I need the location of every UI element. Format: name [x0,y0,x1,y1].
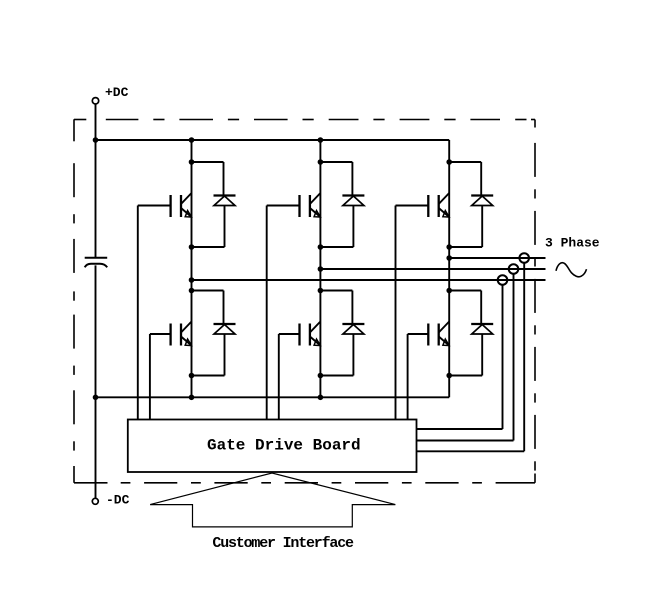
wire gate Q4 to gate drive board [278,334,280,420]
dashed enclosure border right [534,120,536,483]
wire gate lead Q2 [150,333,171,335]
node emitter Q4 [318,373,324,379]
svg-text:-DC: -DC [106,492,130,507]
node negative bus / leg 1 [189,395,195,401]
wire anode of D6 return [449,334,482,376]
wire gate Q2 to gate drive board [149,334,151,420]
diode D6 [471,324,493,334]
diode D1 [214,196,236,206]
customer interface arrow [150,473,395,527]
wire gate lead Q3 [267,205,300,207]
wire DC link lower [95,265,97,498]
label -DC [106,492,130,507]
wire phase 1 feedback to board [417,285,503,429]
node emitter Q3 [318,244,324,250]
wire anode of D4 return [320,334,353,376]
wire DC link upper [95,140,97,258]
label Customer Interface [212,535,354,552]
wire collector branch to D3 [320,162,352,196]
wire gate Q6 to gate drive board [407,334,409,420]
node collector Q1 [189,159,195,165]
label Gate Drive Board [207,437,361,455]
transistor Q2 [171,322,192,346]
wire anode of D1 return [192,206,225,248]
wire phase leg 3 vertical [448,140,450,397]
wire phase 1 output line [192,279,546,281]
transistor Q1 [171,193,192,217]
terminal -DC [92,498,98,504]
wire phase leg 2 vertical [319,140,321,397]
node collector Q4 [318,288,324,294]
svg-text:3 Phase: 3 Phase [545,235,600,250]
diode D5 [471,196,493,206]
capacitor C1 bottom plate [85,264,108,268]
wire gate Q5 to gate drive board [395,206,397,420]
wire collector branch to D1 [192,162,224,196]
node emitter Q1 [189,244,195,250]
wire phase 3 feedback to board [417,263,525,452]
current sensor phase 3 [519,253,529,263]
label +DC [105,85,129,100]
wire anode of D2 return [192,334,225,376]
wire anode of D5 return [449,206,482,248]
node phase 1 output [189,277,195,283]
wire +DC terminal to positive bus [95,104,97,140]
transistor Q6 [428,322,449,346]
wire negative DC bus [96,396,450,398]
wire gate Q3 to gate drive board [266,206,268,420]
node negative bus / DC link [93,395,99,401]
wire phase 3 output line [449,257,545,259]
wire gate Q1 to gate drive board [137,206,139,420]
node positive bus / leg 2 [318,137,324,143]
wire phase 2 feedback to board [417,274,514,441]
wire phase leg 1 vertical [191,140,193,397]
current sensor phase 1 [498,275,508,285]
node phase 3 output [446,255,452,261]
wire collector branch to D2 [192,291,224,325]
wire gate lead Q4 [279,333,300,335]
diode D3 [342,196,364,206]
node emitter Q5 [446,244,452,250]
wire gate lead Q6 [408,333,429,335]
node emitter Q6 [446,373,452,379]
dashed enclosure border left [73,119,75,483]
wire gate lead Q5 [396,205,429,207]
node emitter Q2 [189,373,195,379]
wire positive DC bus [96,139,450,141]
node collector Q5 [446,159,452,165]
transistor Q5 [428,193,449,217]
svg-text:Gate Drive Board: Gate Drive Board [207,437,361,455]
svg-text:Customer Interface: Customer Interface [212,535,354,552]
dashed enclosure border bottom [74,482,535,484]
terminal +DC [92,98,98,104]
wire phase 2 output line [320,268,545,270]
current sensor phase 2 [509,264,519,274]
transistor Q4 [300,322,321,346]
node positive bus / leg 1 [189,137,195,143]
wire collector branch to D5 [449,162,481,196]
gate drive board U1 [128,420,417,473]
dashed enclosure border top [74,119,535,121]
label 3 Phase [545,235,600,250]
wire anode of D3 return [320,206,353,248]
wire collector branch to D6 [449,291,481,325]
node negative bus / leg 2 [318,395,324,401]
capacitor C1 top plate [85,257,108,259]
node positive bus / DC link [93,137,99,143]
node collector Q6 [446,288,452,294]
transistor Q3 [300,193,321,217]
diode D4 [342,324,364,334]
svg-text:+DC: +DC [105,85,129,100]
wire gate lead Q1 [138,205,171,207]
diode D2 [214,324,236,334]
node phase 2 output [318,266,324,272]
node collector Q2 [189,288,195,294]
node collector Q3 [318,159,324,165]
wire collector branch to D4 [320,291,352,325]
AC sine symbol [556,263,587,277]
